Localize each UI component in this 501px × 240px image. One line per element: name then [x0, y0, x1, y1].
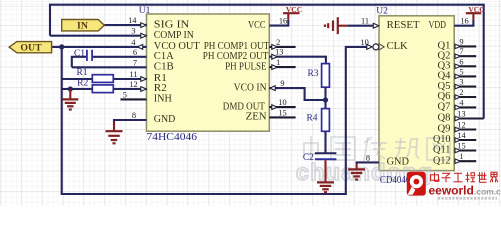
svg-text:U1: U1: [139, 6, 151, 16]
svg-text:VDD: VDD: [429, 19, 447, 31]
svg-text:R2: R2: [77, 78, 88, 88]
svg-text:GND: GND: [154, 113, 176, 125]
svg-text:11: 11: [130, 70, 138, 79]
svg-text:16: 16: [279, 17, 287, 26]
svg-text:3: 3: [459, 78, 463, 87]
svg-text:13: 13: [275, 48, 283, 57]
svg-text:OUT: OUT: [20, 43, 42, 54]
svg-text:5: 5: [459, 67, 463, 76]
svg-text:4: 4: [131, 38, 136, 47]
svg-text:CLK: CLK: [387, 40, 408, 52]
svg-text:9: 9: [280, 79, 284, 88]
svg-text:10: 10: [360, 38, 368, 47]
svg-text:VCO IN: VCO IN: [234, 81, 267, 93]
svg-text:8: 8: [132, 111, 136, 120]
svg-text:eeworld.com.cn: eeworld.com.cn: [429, 183, 501, 197]
svg-text:C2: C2: [303, 153, 314, 163]
svg-text:PH PULSE: PH PULSE: [225, 60, 267, 72]
svg-text:14: 14: [457, 131, 466, 140]
svg-text:R4: R4: [306, 113, 317, 123]
svg-text:7: 7: [133, 58, 137, 67]
svg-text:2: 2: [276, 38, 280, 47]
svg-text:5: 5: [123, 90, 127, 99]
svg-text:74HC4046: 74HC4046: [147, 132, 198, 143]
svg-text:C1B: C1B: [154, 61, 174, 73]
svg-text:R3: R3: [307, 69, 318, 79]
svg-text:16: 16: [460, 17, 468, 26]
svg-text:ZEN: ZEN: [246, 111, 267, 123]
svg-text:11: 11: [361, 17, 369, 26]
svg-text:3: 3: [131, 27, 135, 36]
svg-text:GND: GND: [387, 156, 409, 168]
svg-text:R1: R1: [76, 68, 87, 78]
svg-text:10: 10: [278, 98, 286, 107]
svg-text:1: 1: [459, 152, 463, 161]
svg-text:COMP IN: COMP IN: [154, 29, 194, 41]
svg-text:CD4040: CD4040: [380, 175, 411, 186]
svg-text:U2: U2: [376, 6, 388, 16]
svg-text:12: 12: [129, 80, 137, 89]
svg-text:1: 1: [276, 58, 280, 67]
svg-text:15: 15: [457, 142, 465, 151]
svg-text:15: 15: [278, 108, 286, 117]
svg-text:INH: INH: [154, 93, 172, 105]
svg-text:VCC: VCC: [248, 19, 266, 31]
svg-text:6: 6: [133, 48, 137, 57]
svg-text:8: 8: [366, 153, 370, 162]
svg-text:C1: C1: [74, 49, 85, 59]
svg-text:4: 4: [459, 98, 464, 107]
svg-text:VCC: VCC: [286, 5, 302, 14]
svg-text:6: 6: [459, 57, 463, 66]
svg-text:Q12: Q12: [433, 154, 451, 166]
svg-text:VCC: VCC: [468, 5, 484, 14]
svg-text:12: 12: [457, 121, 465, 130]
svg-text:14: 14: [128, 16, 137, 25]
svg-text:9: 9: [459, 37, 463, 46]
svg-text:13: 13: [457, 110, 465, 119]
svg-text:7: 7: [459, 47, 463, 56]
svg-text:IN: IN: [77, 21, 88, 32]
svg-text:RESET: RESET: [387, 19, 420, 31]
svg-text:2: 2: [459, 88, 463, 97]
